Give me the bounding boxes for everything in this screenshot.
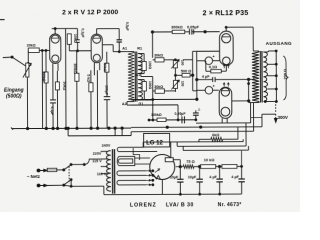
wire 10k down — [68, 44, 70, 50]
capacitor 4uF b — [241, 166, 243, 179]
rectifier heater — [154, 175, 160, 179]
resistor 300k feedback — [152, 31, 172, 33]
interstage secondary top — [138, 54, 142, 74]
svg-text:100Ω: 100Ω — [148, 61, 152, 70]
potentiometer bias upper — [173, 60, 177, 68]
wire V4 anode — [232, 100, 249, 102]
wire grid leak drop — [65, 29, 67, 56]
wire M1 right — [213, 60, 220, 62]
PT secondary hairpin 4 — [117, 171, 146, 176]
wire 0.5M — [45, 50, 47, 71]
resistor 30k lower — [155, 89, 164, 93]
wire grid leak V1 lower — [65, 55, 67, 128]
svg-text:0,05µF: 0,05µF — [175, 112, 187, 116]
wire B+ preamp rail — [151, 32, 153, 58]
rectifier anode plate — [165, 158, 173, 162]
PT primary winding — [106, 151, 110, 192]
svg-text:Nr. 4673*: Nr. 4673* — [218, 202, 242, 208]
svg-text:300kΩ: 300kΩ — [42, 71, 46, 82]
wire rail y150 — [183, 149, 248, 151]
wire grid bus vertical — [192, 60, 194, 91]
PT secondary hairpin 3 — [118, 159, 132, 163]
wire screen row — [149, 119, 196, 121]
svg-text:LVA/ B 30: LVA/ B 30 — [166, 202, 194, 208]
svg-text:A1: A1 — [122, 47, 127, 51]
switch arm 2 — [64, 180, 71, 185]
wire anode rail V2 — [97, 28, 119, 30]
wire IT primary bottom — [133, 100, 135, 103]
wire V2 plate right — [103, 44, 113, 46]
PT primary taps — [101, 150, 108, 152]
svg-text:100: 100 — [180, 60, 184, 66]
output transformer core — [259, 51, 261, 102]
resistor 50k cathode V1 — [55, 82, 59, 90]
svg-text:0,1µF: 0,1µF — [50, 106, 54, 115]
wire secondary top leads — [138, 53, 144, 55]
svg-text:10µF: 10µF — [170, 175, 179, 179]
wire G bus — [131, 98, 197, 100]
wire 20k to V1 grid — [39, 49, 49, 51]
V3 heater arrows — [223, 64, 229, 68]
wire LG12 corner stubs — [133, 148, 139, 160]
svg-text:30kΩ: 30kΩ — [154, 54, 163, 58]
capacitor 30uF psu — [193, 112, 199, 114]
resistor 20k — [28, 48, 39, 53]
wire rail y127 — [131, 126, 262, 129]
svg-text:0,1Ω: 0,1Ω — [209, 65, 217, 69]
resistor 6k — [199, 138, 211, 140]
switch arm 1 — [64, 165, 71, 170]
wire rail y142 — [143, 141, 243, 143]
output transformer secondary — [263, 52, 267, 102]
svg-text:300V: 300V — [278, 115, 288, 120]
capacitor 100uF bypass 2 — [106, 72, 108, 96]
resistor 100 bottom — [142, 82, 146, 92]
output brace — [283, 56, 288, 100]
svg-text:200 Ω: 200 Ω — [283, 69, 287, 79]
capacitor 10uF a — [179, 167, 181, 180]
PT secondary hairpin 1 — [117, 142, 157, 151]
balance resistor 500 — [182, 73, 190, 77]
svg-text:115 V: 115 V — [92, 159, 102, 163]
svg-text:G1: G1 — [138, 102, 143, 106]
tube V3 RL12P35 — [219, 31, 233, 65]
wire 5k — [90, 70, 92, 82]
mains terminal N — [37, 184, 46, 186]
PT secondary hairpin 2 — [117, 156, 134, 165]
wire B+ to rail — [241, 165, 243, 167]
wire fuse to switch — [57, 169, 64, 171]
wire V2 anode up — [96, 29, 98, 34]
resistor 0.5M grid V1 — [44, 72, 48, 83]
switch link dashed — [68, 166, 70, 183]
scan smudge — [0, 19, 5, 21]
svg-text:K1: K1 — [136, 73, 140, 77]
anode rail to output transformer — [226, 26, 253, 28]
capacitor 0.5uF coupling 2 — [118, 29, 120, 40]
V2 heater pins — [93, 63, 95, 70]
capacitor 0.1uF coupling 1 — [76, 29, 78, 40]
wire V1 anode up — [54, 29, 56, 34]
wire anode rail V1 — [52, 28, 70, 30]
input terminal — [3, 56, 12, 59]
tube V1 RV12P2000 — [50, 34, 61, 64]
PT core — [111, 149, 113, 193]
svg-text:AUSGANG: AUSGANG — [266, 41, 292, 46]
svg-text:10 kΩ: 10 kΩ — [204, 157, 215, 162]
resistor 0.1 cathode — [211, 69, 222, 72]
V4 heater arrows — [223, 83, 229, 87]
wire M1 left — [197, 60, 205, 62]
svg-text:50kΩ: 50kΩ — [103, 63, 107, 72]
wire secondary bottom leads — [138, 79, 144, 81]
wire pot to ground bus — [26, 78, 28, 129]
svg-text:4 µF: 4 µF — [202, 75, 210, 79]
resistor 10k b — [222, 165, 237, 169]
meter M1 — [205, 57, 213, 65]
svg-text:~ Netz: ~ Netz — [27, 174, 41, 179]
resistor 75 Ohm — [183, 165, 194, 169]
svg-text:10kΩ: 10kΩ — [73, 34, 77, 43]
wire cap1 join — [52, 127, 54, 129]
vertical to LG12 area — [114, 128, 116, 135]
svg-text:R1: R1 — [137, 47, 142, 51]
resistor 10k a — [200, 165, 215, 169]
capacitor 0.05uF feedback — [185, 31, 190, 33]
resistor 100k — [157, 118, 166, 122]
wire 100 top to grid bus — [143, 71, 145, 74]
rectifier tube LG12 — [150, 154, 175, 179]
svg-text:0,1µF: 0,1µF — [80, 28, 84, 38]
V4 heater pins — [221, 118, 223, 123]
svg-text:⊥: ⊥ — [198, 107, 201, 111]
wire rail y146 — [177, 145, 246, 147]
svg-text:4 µF: 4 µF — [209, 175, 217, 179]
wire to V4 grid — [193, 90, 197, 92]
ground bus — [12, 127, 131, 130]
svg-text:6kΩ: 6kΩ — [212, 133, 219, 137]
V1 heater pins — [52, 63, 54, 70]
LG12 box — [144, 133, 170, 147]
wire switch2 to bottom — [70, 180, 72, 187]
wire screen row drop — [177, 105, 179, 120]
wire return — [41, 50, 43, 128]
wire 100uF join — [96, 127, 98, 129]
mains terminal L — [37, 169, 46, 171]
rectifier output wire — [173, 159, 180, 161]
interstage secondary bottom — [138, 80, 142, 101]
resistor 5k cathode V2 — [89, 83, 93, 92]
svg-text:4 µF: 4 µF — [231, 175, 239, 179]
svg-text:220V: 220V — [93, 152, 102, 156]
meter M2 — [205, 86, 213, 94]
svg-text:(500Ω): (500Ω) — [6, 94, 22, 100]
svg-text:2 x R V 12 P 2000: 2 x R V 12 P 2000 — [62, 9, 118, 16]
svg-text:500 Ω: 500 Ω — [181, 69, 191, 73]
wire OT secondary bottom — [264, 100, 277, 102]
wire filter right — [237, 165, 242, 167]
wire coupling to V2 grid — [69, 50, 90, 52]
capacitor 0.05uF psu — [181, 116, 183, 123]
capacitor 4uF mid — [197, 79, 213, 81]
wire OT primary top — [253, 50, 259, 52]
wire OT secondary top — [263, 51, 268, 53]
svg-text:30kΩ: 30kΩ — [154, 85, 163, 89]
svg-text:100µF: 100µF — [104, 85, 108, 95]
filter rail — [176, 166, 183, 168]
wire M2 leads — [197, 89, 205, 91]
wire pot1 down — [174, 68, 176, 73]
output transformer primary — [252, 52, 259, 102]
svg-text:0,05µF: 0,05µF — [187, 25, 200, 29]
wire to V3 grid — [192, 51, 194, 59]
resistor 50k screen — [105, 63, 109, 72]
wire OT primary bottom — [258, 101, 260, 104]
wire V4 anode to OT — [248, 100, 250, 102]
svg-text:2 × RL12 P35: 2 × RL12 P35 — [203, 10, 249, 17]
resistor 100 top — [142, 62, 146, 71]
svg-text:300kΩ: 300kΩ — [73, 63, 77, 74]
interstage transformer core — [134, 52, 136, 102]
wire V3 anode top — [225, 27, 227, 31]
svg-text:10µF: 10µF — [188, 175, 197, 179]
svg-text:LG 12: LG 12 — [146, 140, 163, 146]
wire rail y131.7 — [131, 130, 253, 133]
wire input diagonal — [12, 57, 27, 67]
wire bus y105 — [131, 104, 178, 106]
svg-text:100: 100 — [180, 81, 184, 87]
wire OT center tap — [249, 78, 254, 80]
wire cathode resistor — [206, 70, 211, 72]
svg-text:LORENZ: LORENZ — [130, 202, 157, 208]
tube V2 RV12P2000 — [91, 34, 102, 63]
wire 30k up lead — [153, 59, 155, 61]
svg-text:240V: 240V — [102, 144, 111, 148]
resistor 10k anode V1 — [67, 34, 71, 45]
wire pot top to 20k — [27, 51, 29, 63]
capacitor 4uF a — [219, 166, 221, 179]
vertical 2 to LG12 area — [121, 128, 123, 135]
wire IT primary top — [127, 51, 134, 53]
wire filter mid — [216, 165, 222, 167]
wire 30k lower leads — [153, 90, 155, 92]
svg-text:0,5µF: 0,5µF — [125, 22, 129, 31]
wire switch1 to taps — [71, 159, 101, 165]
PT secondary hairpin 5 — [117, 180, 146, 185]
svg-text:300kΩ: 300kΩ — [171, 25, 183, 29]
wire heater rail y122 — [196, 122, 251, 124]
svg-text:100kΩ: 100kΩ — [151, 113, 162, 117]
tube V4 RL12P35 — [219, 87, 232, 118]
wire bottom rail — [70, 185, 72, 187]
svg-text:5 kΩ: 5 kΩ — [86, 74, 90, 82]
resistor 30k upper — [155, 58, 164, 62]
svg-text:100Ω: 100Ω — [148, 81, 152, 90]
OT secondary taps — [267, 63, 276, 65]
wire N to switch — [46, 184, 64, 186]
svg-text:A2: A2 — [122, 102, 127, 106]
wire V3 grid line — [197, 50, 220, 52]
wire 300V tap — [262, 113, 276, 115]
svg-text:110 V: 110 V — [97, 172, 107, 176]
svg-text:20kΩ: 20kΩ — [27, 44, 36, 48]
potentiometer bias lower — [173, 80, 177, 88]
hairpin arrows — [146, 179, 151, 186]
wire screen resistor — [106, 52, 108, 63]
interstage transformer primary — [128, 53, 134, 101]
wire 50k cathode — [56, 71, 58, 82]
node A — [179, 166, 181, 168]
dashed measure line — [275, 101, 277, 112]
wire to IT primary A1 — [113, 51, 127, 53]
potentiometer P1 — [26, 63, 29, 77]
filter ground rail — [104, 193, 242, 196]
wire 300k grid V2 — [76, 51, 78, 73]
fuse Si — [47, 168, 57, 171]
capacitor 10uF b — [198, 165, 200, 167]
wire rail to cap — [70, 28, 78, 30]
LG12 heater leads — [135, 157, 150, 159]
bus second rail — [68, 135, 131, 137]
resistor 300k grid V2 — [75, 73, 79, 81]
svg-text:75 Ω: 75 Ω — [186, 159, 195, 164]
capacitor 0.1uF bypass 1 — [52, 71, 54, 100]
wire pot2 — [174, 73, 176, 80]
wire 30k to pot1 — [164, 59, 175, 61]
